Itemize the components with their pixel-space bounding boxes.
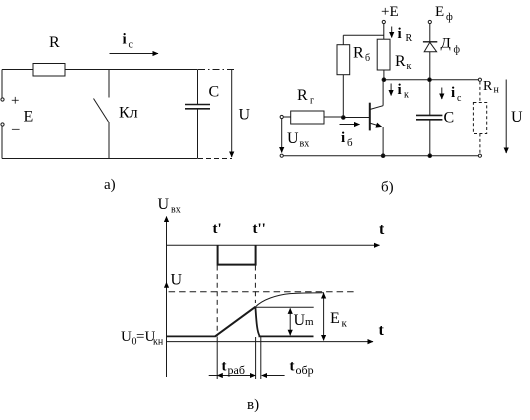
- svg-text:к: к: [407, 61, 412, 72]
- svg-text:E: E: [330, 310, 340, 327]
- svg-text:вх: вх: [300, 139, 310, 150]
- svg-text:m: m: [305, 316, 314, 328]
- svg-text:раб: раб: [228, 363, 245, 377]
- svg-text:t: t: [379, 322, 385, 339]
- svg-text:C: C: [209, 84, 220, 101]
- svg-text:i: i: [341, 130, 345, 146]
- svg-text:t'': t'': [253, 221, 266, 237]
- svg-text:t: t: [379, 221, 385, 238]
- svg-text:н: н: [494, 85, 500, 96]
- svg-text:ф: ф: [446, 12, 453, 23]
- svg-text:обр: обр: [296, 363, 314, 377]
- svg-text:+: +: [11, 93, 19, 109]
- svg-text:R: R: [353, 45, 364, 62]
- svg-text:Е: Е: [435, 4, 444, 20]
- svg-text:U: U: [239, 107, 251, 124]
- svg-text:б): б): [381, 180, 394, 196]
- svg-text:U: U: [287, 130, 299, 147]
- svg-text:R: R: [49, 34, 60, 51]
- svg-text:t: t: [290, 359, 295, 375]
- svg-text:U: U: [121, 329, 132, 345]
- svg-text:t: t: [222, 359, 227, 375]
- svg-text:вх: вх: [171, 205, 181, 216]
- svg-text:к: к: [342, 318, 348, 330]
- svg-text:i: i: [398, 26, 402, 42]
- svg-text:+E: +E: [381, 4, 399, 20]
- svg-text:Д: Д: [441, 36, 451, 52]
- svg-text:Кл: Кл: [119, 105, 138, 122]
- svg-text:i: i: [398, 82, 402, 98]
- svg-text:кн: кн: [153, 337, 164, 348]
- svg-text:C: C: [444, 110, 455, 127]
- svg-text:U: U: [158, 196, 170, 213]
- svg-text:R: R: [297, 87, 308, 104]
- svg-text:i: i: [123, 32, 127, 48]
- svg-text:б: б: [347, 137, 353, 149]
- svg-text:к: к: [404, 90, 409, 101]
- svg-text:б: б: [365, 53, 370, 64]
- svg-text:ф: ф: [454, 45, 461, 56]
- svg-text:U: U: [294, 312, 306, 329]
- svg-text:R: R: [395, 53, 406, 70]
- svg-text:в): в): [247, 397, 259, 413]
- svg-text:R: R: [483, 79, 493, 94]
- svg-text:а): а): [104, 177, 116, 193]
- svg-text:i: i: [451, 85, 455, 101]
- svg-text:R: R: [406, 33, 413, 44]
- svg-text:U: U: [511, 109, 523, 126]
- svg-text:U: U: [171, 272, 183, 289]
- svg-text:E: E: [24, 109, 34, 126]
- svg-text:c: c: [457, 93, 462, 104]
- svg-text:г: г: [310, 96, 314, 107]
- svg-text:–: –: [11, 121, 20, 137]
- svg-text:t': t': [213, 221, 222, 237]
- svg-text:c: c: [129, 40, 134, 51]
